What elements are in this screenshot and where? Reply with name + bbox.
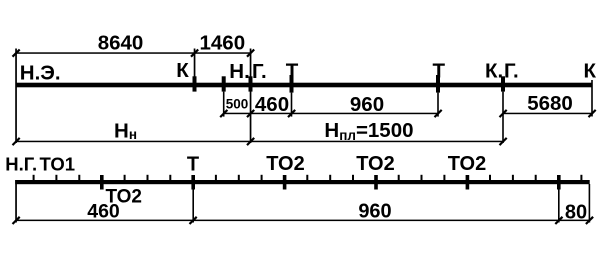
svg-text:500: 500 (226, 96, 249, 111)
extension left start (Н.Г.) line 2 (15, 180, 17, 223)
svg-text:К: К (584, 60, 597, 83)
svg-text:80: 80 (565, 202, 587, 224)
svg-text:ТО1: ТО1 (40, 153, 76, 174)
extension below T2 (437, 93, 439, 117)
dimension line top (8640/1460) (16, 52, 251, 54)
dim slash x223.7 y113.4 (220, 110, 227, 117)
svg-text:5680: 5680 (527, 92, 573, 115)
main axis line 2 (15, 180, 590, 184)
tick Н.Г. on line 1 (249, 76, 253, 91)
extension line K (194, 49, 196, 83)
minor ticks line 2 (33, 175, 583, 181)
dim slash x503 y141.4 (500, 138, 507, 145)
extension below Т tick line 2 (192, 190, 194, 223)
dim slash x16 y141.4 (13, 138, 20, 145)
extension line Н.Г. (250, 49, 252, 144)
svg-text:8640: 8640 (98, 32, 144, 55)
svg-text:Т: Т (433, 60, 446, 83)
dim slash x503 y113.4 (500, 110, 507, 117)
svg-text:Г.: Г. (504, 60, 519, 83)
svg-text:Н.: Н. (229, 60, 250, 83)
dim slash at x250.5 y53 (247, 50, 254, 57)
dim slash at x16 y53 (13, 50, 20, 57)
extension below 80-start tick (558, 190, 560, 223)
svg-text:ТО2: ТО2 (266, 153, 304, 175)
thick tick ТО2-3 on line 2 (466, 175, 470, 190)
thick tick ТО2-1 on line 2 (283, 175, 287, 190)
svg-text:ТО2: ТО2 (356, 153, 394, 175)
extension right end line 2 (589, 184, 591, 223)
dim slash x16 y220.3 (13, 217, 20, 224)
dimension line Нн / Нпл (16, 141, 503, 143)
svg-text:960: 960 (350, 93, 384, 116)
svg-text:Н.Г.: Н.Г. (5, 153, 37, 174)
extension line left (Н.Э.) (15, 49, 17, 144)
svg-text:Т: Т (187, 154, 199, 176)
tick T1 on line 1 (290, 75, 294, 93)
tick К.Г. on line 1 (501, 76, 505, 91)
svg-text:ТО2: ТО2 (448, 153, 486, 175)
svg-text:К.: К. (485, 60, 503, 83)
tick T2 on line 1 (436, 75, 440, 93)
tick 500-start on line 1 (222, 76, 226, 91)
main axis line 1 (16, 83, 593, 88)
extension below T1 (291, 93, 293, 117)
extension right end К (591, 80, 593, 117)
svg-text:Г.: Г. (252, 60, 267, 83)
dimension line bottom 460/960/80 (16, 220, 589, 222)
dimension line 5680 (503, 113, 592, 115)
dim slash x193 y220.3 (190, 217, 197, 224)
thick tick 80-start on line 2 (557, 175, 561, 190)
thick tick Т on line 2 (191, 175, 195, 190)
svg-text:960: 960 (358, 201, 391, 223)
svg-text:Нпл=1500: Нпл=1500 (324, 119, 413, 143)
dim slash x250.5 y113.4 (247, 110, 254, 117)
dim slash x558.8 y220.3 (555, 217, 562, 224)
dimension line 500/460/960 (224, 113, 438, 115)
extension below К.Г. (502, 92, 504, 143)
svg-text:Н.Э.: Н.Э. (20, 61, 61, 84)
dim slash x592 y113.4 (589, 110, 596, 117)
svg-text:460: 460 (255, 93, 289, 116)
dim slash x250.5 y141.4 (247, 138, 254, 145)
dim slash x589.4 y220.3 (586, 217, 593, 224)
thick tick ТО2-2 on line 2 (374, 175, 378, 190)
dim slash x438 y113.4 (435, 110, 442, 117)
svg-text:460: 460 (87, 201, 120, 223)
thick tick ТО2-below on line 2 (100, 175, 104, 190)
svg-text:К: К (176, 59, 189, 82)
extension below 500-start (223, 92, 225, 117)
dim slash at x194.5 y53 (191, 50, 198, 57)
dim slash x291.5 y113.4 (288, 110, 295, 117)
svg-text:Т: Т (286, 60, 299, 83)
svg-text:1460: 1460 (199, 32, 245, 55)
tick K on line 1 (193, 76, 197, 91)
